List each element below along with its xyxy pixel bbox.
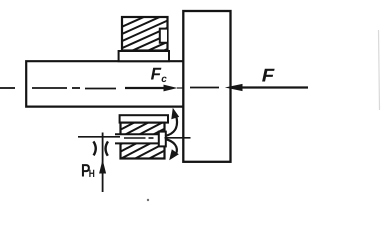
svg-text:c: c: [161, 74, 167, 85]
nozzle gap symbol: [93, 141, 108, 155]
oil slot plug: [159, 132, 166, 147]
shaft: [26, 61, 183, 106]
svg-text:H: H: [89, 168, 95, 180]
centerline (shaft axis, dash-dot): [0, 88, 219, 89]
svg-text:F: F: [151, 65, 162, 84]
bottom bearing flange: [120, 115, 168, 122]
label PH: [81, 160, 95, 180]
faint page fold line: [379, 30, 380, 110]
slot centerline: [78, 137, 191, 138]
disc end plate: [183, 11, 230, 162]
top bearing flange: [119, 51, 169, 61]
flow arrow upper: [165, 108, 179, 136]
flow arrow lower: [165, 139, 179, 160]
svg-text:F: F: [262, 65, 275, 86]
speck: [147, 199, 149, 201]
force F arrow: [225, 84, 308, 91]
bottom bearing hatching lower band: [112, 96, 172, 186]
top bearing block: [122, 17, 168, 51]
bottom bearing hatching upper band: [112, 96, 172, 186]
oil slot: [115, 134, 160, 143]
force Fc arrow: [125, 85, 183, 92]
top bearing hatching: [115, 3, 175, 73]
top bearing notch: [160, 29, 167, 43]
bottom bearing block: [121, 123, 165, 159]
pressure arrow PH: [99, 133, 106, 193]
label F: [262, 65, 275, 86]
label Fc: [151, 65, 168, 85]
